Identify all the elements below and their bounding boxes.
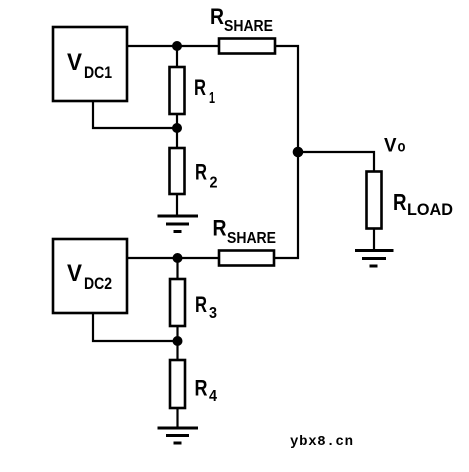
wire VDC2 output to RSHARE2 bbox=[127, 257, 219, 259]
svg-text:R: R bbox=[210, 4, 224, 29]
svg-text:R: R bbox=[194, 75, 206, 100]
voltage source VDC2 bbox=[53, 239, 127, 313]
svg-text:SHARE: SHARE bbox=[224, 18, 273, 35]
svg-text:DC2: DC2 bbox=[84, 274, 112, 293]
svg-text:R: R bbox=[393, 189, 407, 215]
ground under R2 bbox=[158, 216, 199, 232]
wire output node to RLOAD bbox=[298, 152, 374, 172]
wire node C to R3 bbox=[176, 258, 178, 279]
svg-text:LOAD: LOAD bbox=[407, 200, 453, 219]
svg-text:DC1: DC1 bbox=[84, 63, 112, 82]
svg-text:V: V bbox=[384, 136, 397, 157]
node A junction dot bbox=[172, 41, 182, 51]
svg-text:V: V bbox=[67, 49, 82, 76]
resistor RSHARE2 bbox=[213, 216, 277, 266]
node C junction dot bbox=[173, 253, 183, 263]
resistor R2 bbox=[170, 148, 218, 194]
voltage source VDC1 bbox=[53, 27, 127, 101]
svg-text:SHARE: SHARE bbox=[227, 230, 276, 247]
wire R3 to node D bbox=[176, 326, 178, 360]
resistor R4 bbox=[170, 360, 217, 408]
wire VDC2 return to node D bbox=[93, 313, 177, 341]
svg-text:R: R bbox=[195, 160, 207, 185]
wire VDC1 return to node B bbox=[93, 101, 177, 128]
svg-text:ybx8.cn: ybx8.cn bbox=[290, 434, 353, 450]
svg-text:2: 2 bbox=[210, 175, 218, 192]
node D junction dot bbox=[173, 336, 183, 346]
node B junction dot bbox=[172, 123, 182, 133]
label Vo bbox=[384, 136, 406, 157]
svg-text:R: R bbox=[213, 216, 227, 241]
svg-text:3: 3 bbox=[209, 305, 217, 322]
wire RLOAD to ground bbox=[373, 228, 375, 250]
svg-text:4: 4 bbox=[209, 388, 217, 405]
svg-text:o: o bbox=[398, 139, 406, 156]
resistor R3 bbox=[170, 279, 217, 326]
resistor R1 bbox=[170, 67, 216, 114]
svg-text:V: V bbox=[67, 260, 82, 287]
wire RSHARE1 right to bus bbox=[274, 46, 298, 258]
ground under R4 bbox=[158, 428, 199, 443]
wire VDC1 output to RSHARE1 bbox=[127, 45, 219, 47]
svg-text:R: R bbox=[195, 376, 208, 401]
resistor RSHARE1 bbox=[210, 4, 275, 54]
ground under RLOAD bbox=[355, 251, 394, 267]
wire R2 to ground bbox=[176, 194, 178, 216]
wire R1 to node B bbox=[176, 114, 178, 148]
wire R4 to ground bbox=[176, 408, 178, 428]
node Vo junction dot bbox=[293, 147, 304, 158]
svg-text:R: R bbox=[195, 292, 207, 317]
wire node A to R1 bbox=[176, 46, 178, 67]
resistor RLOAD bbox=[367, 172, 454, 229]
svg-text:1: 1 bbox=[209, 90, 215, 107]
